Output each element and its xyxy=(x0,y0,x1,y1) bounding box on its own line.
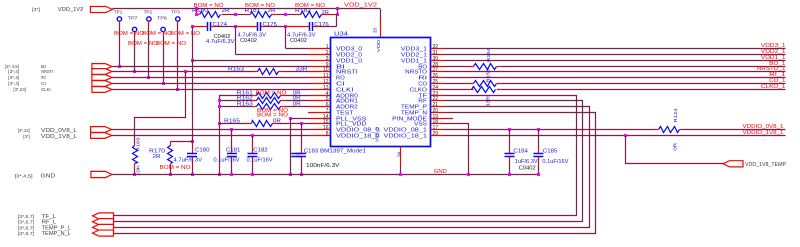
wire TP2 xyxy=(148,21,150,27)
resistor R169 10K xyxy=(133,146,138,164)
capacitor C181 0.1uF/16V xyxy=(230,128,233,131)
svg-text:4.7uF/6.3V: 4.7uF/6.3V xyxy=(206,39,235,45)
svg-text:NRSTI: NRSTI xyxy=(41,69,53,74)
resistor R161 0R BOM=NO xyxy=(219,95,252,97)
svg-text:1uF/6.3V: 1uF/6.3V xyxy=(515,159,539,165)
junction capline node1 xyxy=(234,25,237,28)
wire net BO_1 xyxy=(431,66,445,68)
svg-text:VDD_1V2: VDD_1V2 xyxy=(58,7,84,13)
wire VSS pin 18 to GND xyxy=(431,123,445,125)
junction TP6 xyxy=(162,82,165,85)
junction R169 GND xyxy=(133,173,136,176)
pin 33 stub of U34 (VDD) xyxy=(380,20,382,38)
wire net CLKI xyxy=(112,89,310,91)
svg-text:C175: C175 xyxy=(263,22,278,28)
port VDD_0V8_L xyxy=(91,127,112,133)
resistor R165 0R xyxy=(218,122,221,125)
wire TP3 xyxy=(177,21,179,27)
svg-text:BOM = NO: BOM = NO xyxy=(156,41,186,47)
svg-text:TP6: TP6 xyxy=(157,16,167,22)
svg-text:0R: 0R xyxy=(273,119,281,125)
junction node0 pin3 xyxy=(191,59,194,62)
svg-text:U34: U34 xyxy=(334,32,348,38)
capacitor C185 0.1uF/16V xyxy=(537,128,540,131)
capacitor C176 4.7uF/6.3V xyxy=(309,22,311,31)
svg-text:TP1: TP1 xyxy=(114,10,123,16)
wire rail to chain node0 xyxy=(196,9,198,15)
svg-text:R154: R154 xyxy=(486,47,491,62)
pin 34 wire VSS_0 to GND xyxy=(400,147,402,166)
junction chain node2 xyxy=(284,13,287,16)
port GND xyxy=(91,171,112,177)
junction chain node1 xyxy=(234,13,237,16)
wire cap line xyxy=(192,26,207,28)
port VDD_1V8_L xyxy=(91,133,112,139)
port CLKI xyxy=(92,87,112,93)
svg-text:0.1uF/16V: 0.1uF/16V xyxy=(542,159,569,165)
resistor R154 33R xyxy=(474,64,497,70)
svg-text:GND: GND xyxy=(41,173,56,179)
junction R162 xyxy=(218,99,221,102)
svg-text:8: 8 xyxy=(326,131,329,137)
svg-text:29: 29 xyxy=(433,131,439,137)
chip U34 BM1397 body xyxy=(331,38,431,147)
svg-text:34: 34 xyxy=(396,151,401,157)
resistor R124 0R xyxy=(659,127,680,133)
svg-text:33: 33 xyxy=(373,27,378,33)
junction TP7 xyxy=(133,70,136,73)
wire net VDDIO_1V8_1 xyxy=(431,135,445,137)
wire TP1 xyxy=(119,21,121,27)
svg-text:100nF/6.3V: 100nF/6.3V xyxy=(306,163,340,169)
wire NRSTI tap to R169 xyxy=(184,70,187,73)
resistor R180 2R xyxy=(196,14,200,16)
test point TP2 xyxy=(147,17,151,21)
port TF_L xyxy=(93,213,114,219)
junction capline node0 xyxy=(191,25,194,28)
wire net VDD2_1 xyxy=(431,54,445,56)
svg-text:BOM = NO: BOM = NO xyxy=(114,31,144,37)
wire ADDR pull vertical xyxy=(219,96,221,175)
wire PIN_MODE stub pin 19 xyxy=(431,118,454,120)
wire net VDD1_1 xyxy=(431,60,445,62)
test point TP1 xyxy=(117,17,121,21)
svg-text:C185: C185 xyxy=(543,148,558,154)
svg-text:BOM = NO: BOM = NO xyxy=(295,3,325,9)
svg-text:BOM = NO: BOM = NO xyxy=(170,31,200,37)
junction C184 GND xyxy=(508,173,511,176)
svg-text:VDD_1V8_L: VDD_1V8_L xyxy=(41,134,78,140)
svg-text:TEMP_N_L: TEMP_N_L xyxy=(42,231,71,237)
wire net CLKO_1 xyxy=(431,89,445,91)
capacitor C180 4.7uF/6.3V xyxy=(192,142,194,149)
port TEMP_N_L xyxy=(93,230,114,236)
svg-text:C174: C174 xyxy=(213,22,228,28)
svg-text:[3*,4]: [3*,4] xyxy=(8,81,19,86)
wire chain line xyxy=(222,14,227,16)
junction C185 GND xyxy=(537,173,540,176)
svg-text:[3*]: [3*] xyxy=(32,7,40,12)
wire net NRSTO_1 xyxy=(431,71,445,73)
junction pin34 GND xyxy=(399,173,402,176)
svg-text:C176: C176 xyxy=(314,22,329,28)
svg-text:[3*,6,7]: [3*,6,7] xyxy=(18,220,34,225)
svg-text:R163: R163 xyxy=(237,102,253,108)
svg-text:0.1uF/16V: 0.1uF/16V xyxy=(214,158,241,164)
svg-text:BOM = NO: BOM = NO xyxy=(160,165,191,171)
wire net VDDIO_0V8_1 xyxy=(431,129,445,131)
wire VDD1_0 pin 3 xyxy=(192,60,310,62)
port NRSTI xyxy=(92,69,112,75)
svg-text:2R: 2R xyxy=(153,154,161,160)
junction TP3 xyxy=(176,88,179,91)
junction pull GND xyxy=(218,173,221,176)
junction PLL_VSS GND xyxy=(289,173,292,176)
svg-text:C184: C184 xyxy=(513,148,528,154)
net GND rail xyxy=(112,174,540,176)
svg-text:VDD: VDD xyxy=(376,39,382,52)
junction rail node0 xyxy=(195,7,198,10)
wire net TEMP_P to TEMP_P_L xyxy=(431,106,445,108)
capacitor C184 1uF/6.3V xyxy=(508,128,511,131)
capacitor C175 4.7uF/6.3V xyxy=(257,22,259,31)
svg-text:R165: R165 xyxy=(224,119,240,125)
junction VSS GND xyxy=(467,173,470,176)
svg-text:[3*,4]: [3*,4] xyxy=(8,69,19,74)
junction C181 GND xyxy=(230,173,233,176)
capacitor C183 100nF/6.3V xyxy=(301,124,303,149)
svg-text:VDD_1V8_TEMP: VDD_1V8_TEMP xyxy=(745,162,787,168)
resistor R162 0R BOM=NO xyxy=(219,100,252,102)
resistor R163 0R BOM=NO xyxy=(219,106,252,108)
junction TP1 xyxy=(118,65,121,68)
svg-text:BM1397_Mode1: BM1397_Mode1 xyxy=(320,148,366,154)
svg-text:0R: 0R xyxy=(293,102,301,108)
port VDD_1V2 xyxy=(90,7,112,13)
svg-text:BOM = NO: BOM = NO xyxy=(128,41,158,47)
junction chain node0 xyxy=(195,13,198,16)
svg-text:VDD_0V8_L: VDD_0V8_L xyxy=(41,128,78,134)
svg-text:0.1uF/16V: 0.1uF/16V xyxy=(247,158,274,164)
svg-text:C182: C182 xyxy=(253,148,268,154)
wire net RF to RF_L xyxy=(431,100,445,102)
wire TEST stub pin 7 xyxy=(308,112,331,114)
svg-text:2R: 2R xyxy=(322,10,329,16)
test point TP6 xyxy=(161,27,165,31)
junction C183 GND xyxy=(300,173,303,176)
svg-text:33R: 33R xyxy=(296,66,308,72)
wire net BI xyxy=(112,66,310,68)
wire net TF to TF_L xyxy=(431,95,445,97)
wire net RI_1 xyxy=(431,77,445,79)
junction capline node2 xyxy=(284,25,287,28)
wire TP7 xyxy=(134,32,136,38)
svg-text:CLKI: CLKI xyxy=(41,87,51,92)
port TEMP_P_L xyxy=(93,224,114,230)
wire net CI xyxy=(112,83,310,85)
svg-text:[3*,6,7]: [3*,6,7] xyxy=(18,214,34,219)
wire rail to chain node3 xyxy=(337,9,339,15)
port VDD_1V8_TEMP xyxy=(723,161,743,167)
port CI xyxy=(92,81,112,87)
svg-text:TP2: TP2 xyxy=(144,10,153,16)
wire PLL_VSS pin to GND xyxy=(290,118,310,120)
svg-text:[3*,4,5]: [3*,4,5] xyxy=(15,173,33,178)
svg-text:BOM = NO: BOM = NO xyxy=(142,31,172,37)
capacitor C174 4.7uF/6.3V xyxy=(207,22,209,31)
svg-text:BOM = NO: BOM = NO xyxy=(194,3,224,9)
port RF_L xyxy=(93,219,114,225)
svg-text:TP3: TP3 xyxy=(171,10,180,16)
wire node0 to pin3 xyxy=(192,27,194,61)
junction chain node3 xyxy=(336,13,339,16)
junction rail node3 xyxy=(336,7,339,10)
resistor R153 33R xyxy=(252,71,258,73)
svg-text:C0402: C0402 xyxy=(290,38,307,44)
svg-text:[3*]: [3*] xyxy=(23,134,30,139)
svg-text:0R: 0R xyxy=(673,142,678,151)
svg-text:BOM = NO: BOM = NO xyxy=(245,3,275,9)
test point TP3 xyxy=(176,17,180,21)
svg-text:[3*,22]: [3*,22] xyxy=(18,128,30,133)
junction C180 GND xyxy=(191,173,194,176)
wire to VDD_1V8_TEMP xyxy=(624,134,627,137)
svg-text:R169: R169 xyxy=(135,137,140,152)
svg-text:GND: GND xyxy=(434,169,447,175)
wire net VDD_0V8_L xyxy=(112,129,310,131)
wire TP6 xyxy=(163,32,165,38)
svg-text:4.7uF/6.3V: 4.7uF/6.3V xyxy=(174,158,203,164)
svg-text:[3*,23]: [3*,23] xyxy=(13,87,26,92)
resistor R182 2R xyxy=(301,12,322,18)
wire R169 to GND xyxy=(134,164,136,169)
resistor R170 2R BOM=NO xyxy=(170,142,172,146)
svg-text:R153: R153 xyxy=(228,66,244,72)
test point TP7 xyxy=(132,27,136,31)
capacitor C182 0.1uF/16V xyxy=(251,134,254,137)
port RO xyxy=(92,75,112,81)
port BI xyxy=(92,64,112,70)
svg-text:C181: C181 xyxy=(226,148,241,154)
svg-text:VDDIO_1V8_1: VDDIO_1V8_1 xyxy=(743,130,784,136)
junction R170 GND xyxy=(169,173,172,176)
junction R163 xyxy=(218,105,221,108)
svg-text:R155: R155 xyxy=(486,68,491,83)
wire node0 branch C180 xyxy=(191,140,194,143)
wire node1 to pin2 VDD2_0 xyxy=(235,27,237,55)
wire net VDD3_1 xyxy=(431,48,445,50)
wire net TEMP_N to TEMP_N_L xyxy=(431,112,445,114)
resistor R155 33R xyxy=(474,81,497,87)
svg-text:VDDIO_18_0: VDDIO_18_0 xyxy=(336,133,380,139)
svg-text:BOM = NO: BOM = NO xyxy=(256,91,287,97)
svg-text:VDD_1V2: VDD_1V2 xyxy=(344,2,377,8)
svg-text:[3*,6,7]: [3*,6,7] xyxy=(18,225,34,230)
wire node2 to pin1 VDD3_0 xyxy=(285,27,287,49)
svg-text:C0402: C0402 xyxy=(240,38,257,44)
resistor R156 33R xyxy=(472,87,496,93)
junction TP2 xyxy=(147,76,150,79)
svg-text:CI: CI xyxy=(41,81,46,86)
junction C182 GND xyxy=(251,173,254,176)
svg-text:C0402: C0402 xyxy=(519,166,536,172)
net VDD_1V2 rail wire xyxy=(112,8,380,10)
wire net CO_1 xyxy=(431,83,445,85)
wire PLL_VDD branch xyxy=(300,122,303,125)
wire net VDD_1V8_L xyxy=(112,135,310,137)
svg-text:[3*,4]: [3*,4] xyxy=(8,75,19,80)
wire net RO xyxy=(112,77,310,79)
svg-text:C180: C180 xyxy=(195,148,210,154)
svg-text:C183: C183 xyxy=(304,148,319,154)
svg-text:VDDIO_18_1: VDDIO_18_1 xyxy=(384,133,428,139)
svg-text:R124: R124 xyxy=(673,108,678,123)
svg-text:TP7: TP7 xyxy=(128,16,138,22)
wire net NRSTI xyxy=(112,71,252,73)
svg-text:RO: RO xyxy=(41,75,46,80)
svg-text:CLKO_1: CLKO_1 xyxy=(761,84,786,90)
svg-text:[3*,6,7]: [3*,6,7] xyxy=(18,231,34,236)
resistor R181 2R xyxy=(251,12,272,18)
